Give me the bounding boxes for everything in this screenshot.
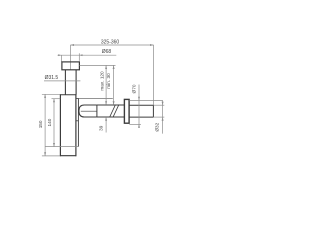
sleeve top line — [78, 97, 112, 99]
dim 140 extension top — [52, 98, 61, 100]
svg-text:Ø68: Ø68 — [102, 49, 112, 55]
tailpipe left wall — [64, 70, 66, 95]
dim D31.5 leader — [44, 80, 80, 82]
reference line from flange — [79, 64, 115, 66]
svg-text:Ø32: Ø32 — [155, 122, 160, 131]
svg-text:min. 30: min. 30 — [106, 73, 111, 89]
outlet pipe top (right of nut) — [129, 104, 153, 106]
outlet pipe bottom (left of nut) — [97, 116, 124, 118]
body bottom — [60, 155, 77, 157]
dim 140 line — [53, 99, 55, 147]
svg-text:max. 120: max. 120 — [99, 71, 104, 91]
svg-text:325-360: 325-360 — [101, 39, 120, 45]
dim D68 extension — [60, 55, 62, 62]
svg-text:39: 39 — [98, 125, 103, 131]
nut — [124, 99, 129, 123]
outer shell bottom flange — [45, 146, 78, 148]
body top — [60, 94, 76, 96]
outlet pipe top (left of nut) — [97, 104, 124, 106]
body right wall — [75, 94, 77, 156]
dim min30 line — [113, 65, 115, 104]
dim 325-360 extension line left — [70, 45, 72, 70]
dim D32 extension top — [153, 104, 164, 106]
outlet pipe end cap — [152, 105, 154, 117]
svg-text:Ø70: Ø70 — [131, 84, 136, 93]
dim 150 extension bottom — [42, 155, 60, 157]
trap arm inner line — [81, 110, 97, 112]
dim D70 line — [138, 85, 140, 128]
hatch stroke 2 — [113, 105, 119, 117]
svg-text:150: 150 — [38, 120, 43, 128]
hatch stroke 1 — [110, 105, 116, 117]
dim 325-360 line — [70, 44, 153, 46]
dim D32 extension bottom — [153, 116, 164, 118]
svg-text:Ø31.5: Ø31.5 — [45, 75, 59, 81]
dim 39 line — [105, 117, 107, 132]
dim D32 line — [162, 100, 164, 133]
outer shell right wall — [77, 98, 79, 146]
trap arm end cap — [96, 105, 98, 117]
dim D68 line — [58, 54, 117, 56]
sleeve top extension line — [129, 99, 162, 101]
tailpipe right wall — [75, 70, 77, 95]
sleeve bottom extension line — [129, 123, 141, 125]
flange — [62, 62, 80, 70]
outlet pipe bottom (right of nut) — [129, 116, 153, 118]
outer shell step top — [76, 97, 78, 99]
trap arm outline — [79, 105, 97, 117]
body left wall — [59, 94, 61, 156]
dim max120 line — [105, 65, 107, 104]
dim 325-360 extension line right — [153, 45, 155, 105]
svg-text:140: 140 — [47, 118, 52, 126]
elbow hub bottom step — [76, 120, 78, 122]
dim 150 line — [44, 94, 46, 156]
dim 150 extension top — [42, 93, 60, 95]
